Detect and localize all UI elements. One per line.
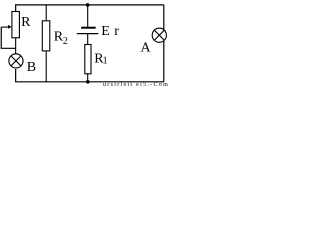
wire R2 to bottom border xyxy=(45,51,47,81)
node dot bottom xyxy=(86,80,90,84)
rheostat R body xyxy=(12,12,20,38)
resistor R2 body xyxy=(42,21,50,51)
svg-text:2: 2 xyxy=(63,36,68,47)
lamp B xyxy=(9,54,23,68)
top border wire xyxy=(16,5,164,11)
svg-text:r: r xyxy=(114,24,119,39)
svg-text:ursirleit ei5.-Com: ursirleit ei5.-Com xyxy=(103,82,169,87)
lamp A xyxy=(152,28,166,42)
svg-text:E: E xyxy=(101,24,110,39)
node dot top xyxy=(86,3,90,7)
wire rheostat bottom to lamp B junction xyxy=(15,38,17,55)
left border wire with slider jog xyxy=(1,27,15,48)
wire R1 to bottom node xyxy=(87,74,89,82)
wire battery to R1 xyxy=(87,34,89,45)
resistor R1 body xyxy=(85,45,91,74)
right border wire xyxy=(163,5,165,82)
svg-text:B: B xyxy=(27,60,36,75)
wire top border to R2 xyxy=(45,5,47,20)
svg-text:A: A xyxy=(141,41,152,56)
battery positive plate (long thin) xyxy=(77,33,99,35)
bottom border wire xyxy=(16,69,164,82)
battery negative plate (short thick) xyxy=(81,27,96,29)
svg-text:R: R xyxy=(21,15,31,30)
wire node to battery xyxy=(87,5,89,27)
rheostat R slider arrow xyxy=(1,26,8,28)
svg-text:1: 1 xyxy=(103,56,108,67)
